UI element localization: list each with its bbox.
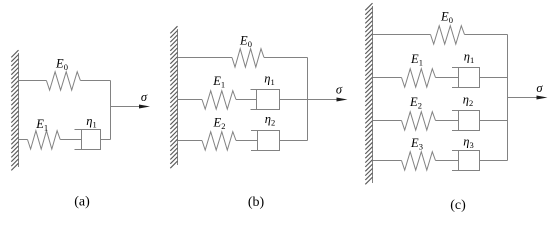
svg-text:σ: σ (336, 82, 343, 96)
svg-text:(a): (a) (74, 195, 90, 210)
svg-text:σ: σ (141, 90, 148, 104)
svg-text:σ: σ (536, 81, 543, 95)
svg-text:(c): (c) (450, 198, 466, 213)
svg-text:(b): (b) (248, 195, 265, 210)
